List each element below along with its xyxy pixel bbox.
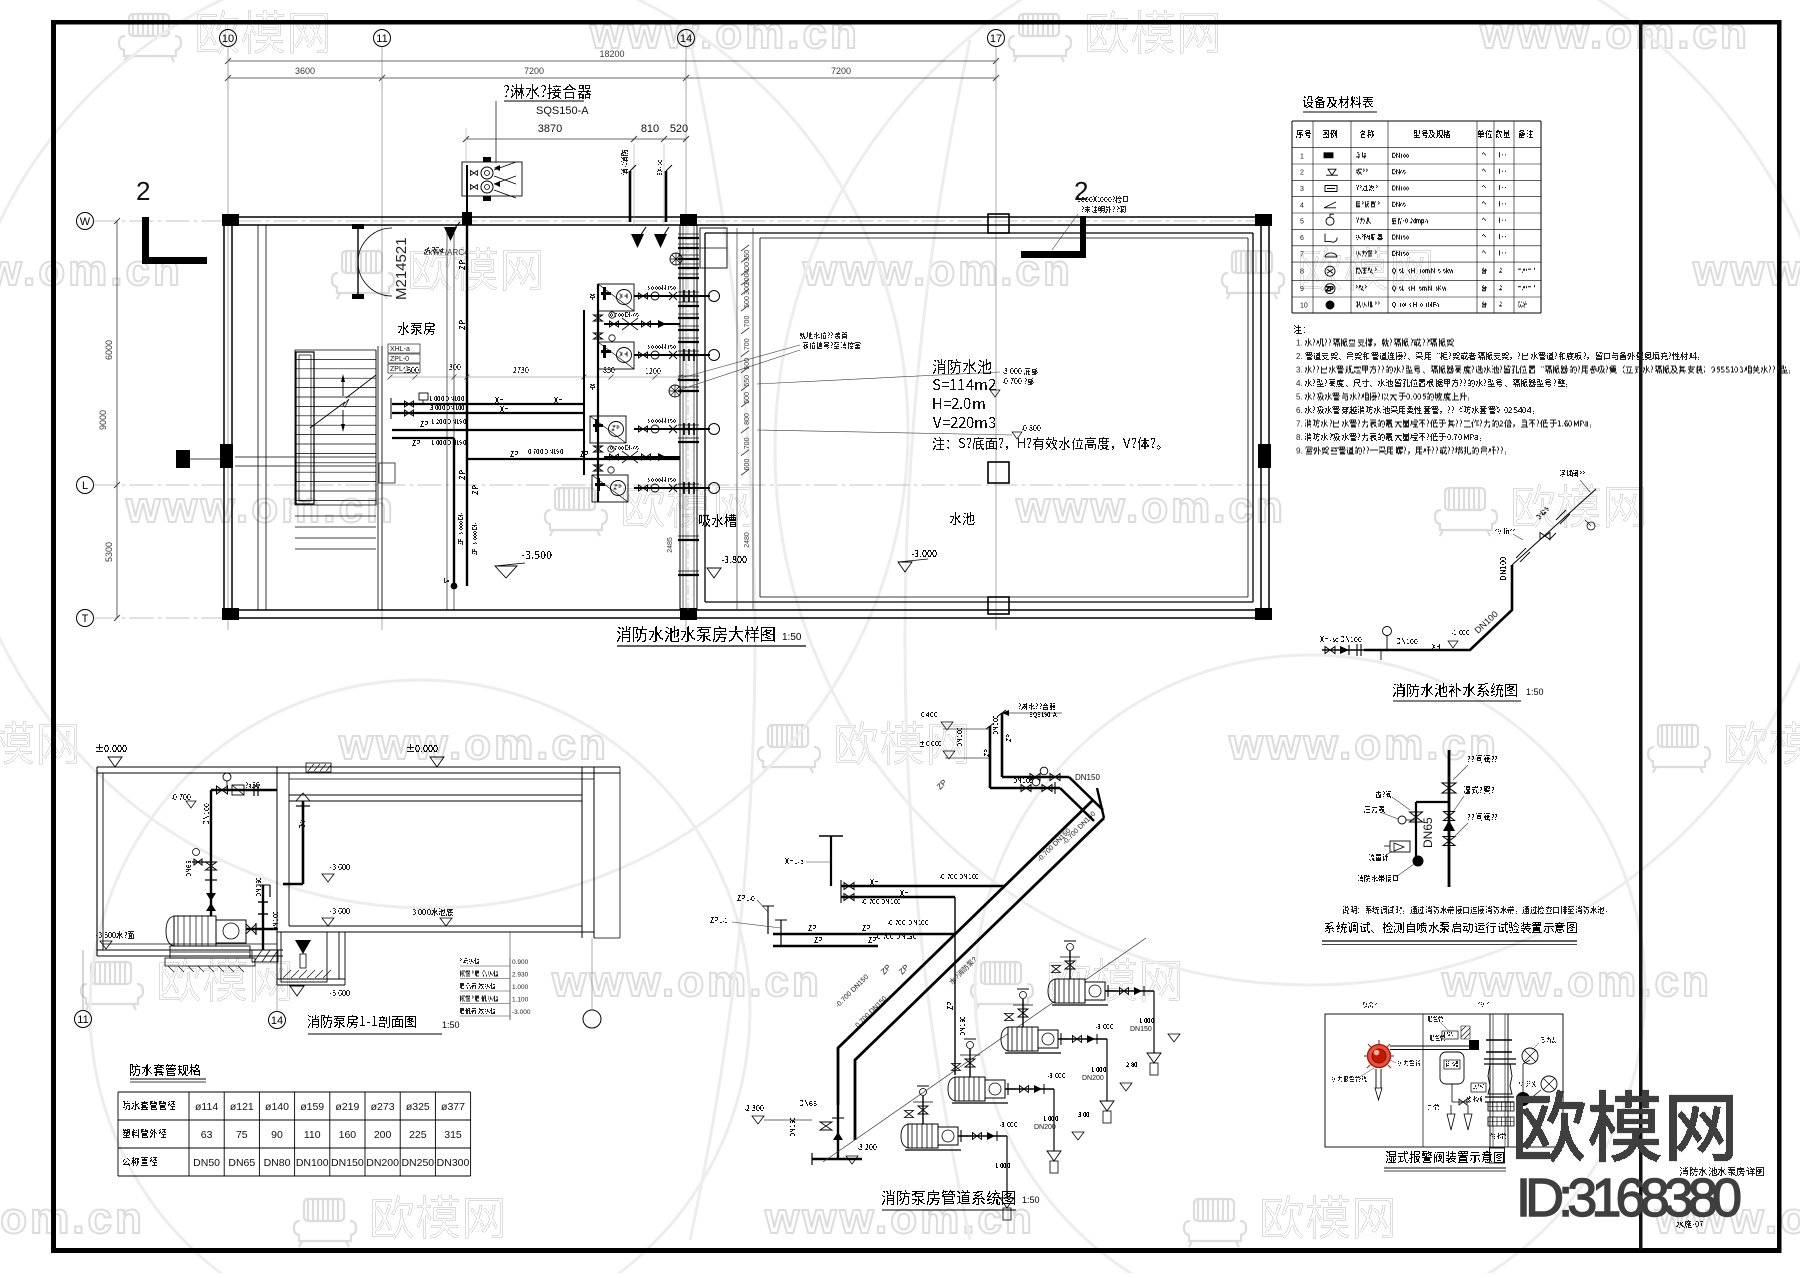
svg-text:www.om.cn: www.om.cn — [0, 246, 183, 295]
pump discharge pipe ZP1 — [634, 419, 720, 436]
iso discharge P1 — [1116, 986, 1154, 1053]
svg-text:8: 8 — [1300, 269, 1304, 276]
svg-text:1:50: 1:50 — [1526, 687, 1544, 697]
iso diagonal rotated labels — [834, 778, 1097, 1030]
section: pump unit — [165, 916, 255, 972]
svg-text:8.: 8. — [1296, 433, 1303, 442]
alarm bell red — [1364, 1040, 1394, 1100]
alarm valve flange blocks — [1466, 1097, 1514, 1139]
svg-text:DN50: DN50 — [193, 1157, 220, 1169]
ZP branch to channel y459 — [467, 450, 680, 460]
iso XH feed lines — [785, 836, 1005, 904]
iso discharge P2 — [1069, 1034, 1107, 1101]
section: sump pit with strainer — [281, 932, 331, 996]
interior dim row 1500/300/2730/850/1200 — [388, 365, 683, 380]
section: vent opening — [306, 763, 331, 772]
corridor wall lines — [258, 225, 454, 610]
test valve row 1 — [604, 313, 680, 331]
pump XH plan — [598, 284, 634, 311]
wet alarm title 湿式报警阀装置示意图 — [1384, 1148, 1506, 1171]
svg-text:9000: 9000 — [98, 410, 108, 430]
fire hydrants in plan — [631, 227, 669, 248]
test device title 系统调试检测自喷水泵启动运行试验装置示意图 — [1322, 923, 1577, 945]
svg-text:DN65: DN65 — [1421, 817, 1435, 848]
section: suction pipe in pool — [283, 793, 310, 884]
iso pump P2 — [1001, 1027, 1069, 1053]
iso funnel P3 — [1047, 1151, 1061, 1173]
svg-text:SQS150-A: SQS150-A — [536, 105, 589, 117]
iso riser A to connector — [958, 723, 1095, 821]
channel flange stacks — [678, 234, 699, 575]
section: top slab — [97, 767, 620, 801]
iso valve chain P2 — [1005, 989, 1034, 1027]
svg-text:W: W — [80, 216, 91, 228]
svg-text:550: 550 — [744, 375, 751, 387]
pump discharge pipe ZP2 — [634, 478, 720, 495]
svg-text:ZPL-0: ZPL-0 — [390, 356, 409, 363]
section: pump base level -3.500 — [96, 932, 134, 950]
svg-text:75: 75 — [236, 1129, 248, 1141]
thick L wall top-left with section mark 2 — [142, 217, 207, 264]
iso discharge P4 — [969, 1131, 1007, 1198]
sprinkler pump connector box — [462, 157, 522, 215]
channel dim strip — [667, 228, 753, 610]
section: suction piping at wall — [246, 878, 278, 962]
svg-text:ø325: ø325 — [406, 1101, 430, 1113]
pump discharge pipe XH1 — [634, 286, 720, 303]
svg-text:XHL-a: XHL-a — [390, 346, 410, 353]
iso long leader diagonal — [823, 938, 1146, 1162]
svg-text:225: 225 — [409, 1129, 427, 1141]
alarm piping to riser — [1390, 1036, 1479, 1051]
iso pump P1 — [1048, 979, 1116, 1005]
grid circle 10 — [220, 30, 237, 631]
iso discharge P3 — [1016, 1084, 1054, 1151]
svg-text:DN150: DN150 — [1130, 1026, 1152, 1033]
grid circle 11 section — [75, 950, 92, 1028]
svg-text:600: 600 — [744, 459, 751, 471]
column blobs on walls — [220, 214, 1272, 620]
svg-text:6: 6 — [1300, 235, 1304, 242]
section: leader level list — [460, 932, 531, 1020]
svg-text:7.: 7. — [1296, 420, 1303, 429]
XH feed pipe pair — [391, 393, 584, 419]
iso connector top labels — [920, 704, 1062, 760]
thick L wall top-right — [1021, 216, 1086, 258]
svg-text:200: 200 — [374, 1129, 392, 1141]
svg-text:-3.000: -3.000 — [512, 1009, 531, 1016]
iso funnel P1 — [1147, 1053, 1161, 1075]
grid circle 14 section — [269, 985, 286, 1029]
svg-text:1.: 1. — [1296, 339, 1303, 348]
iso pump P3 — [948, 1077, 1016, 1103]
big watermark 欧模网 — [1516, 1091, 1733, 1162]
pool level -3.000 — [898, 551, 937, 573]
svg-text:11: 11 — [376, 33, 387, 45]
svg-text:DN200: DN200 — [1034, 1124, 1056, 1131]
dimension 18200 top — [225, 49, 999, 64]
grid circle L — [77, 477, 1271, 494]
svg-text:1:50: 1:50 — [442, 1020, 460, 1030]
svg-text:ZP: ZP — [1326, 287, 1334, 293]
wall top axis W — [228, 217, 1265, 225]
dimension row 3600/7200/7200 — [225, 58, 999, 90]
wall right axis 17+ — [1261, 221, 1269, 618]
section: level ±0.000 marks — [96, 745, 444, 768]
svg-text:1.100: 1.100 — [512, 997, 529, 1004]
svg-text:800: 800 — [744, 413, 751, 425]
svg-text:7200: 7200 — [831, 66, 851, 76]
section title 消防泵房1-1剖面图 — [308, 1016, 460, 1035]
svg-text:2.930: 2.930 — [512, 972, 529, 979]
svg-text:www.om.cn: www.om.cn — [125, 483, 396, 532]
svg-text:160: 160 — [339, 1129, 357, 1141]
section flag 1 left — [176, 450, 228, 468]
iso main diagonal ZP pair — [838, 788, 1104, 1140]
svg-text:11: 11 — [77, 1014, 88, 1026]
svg-text:9: 9 — [1300, 286, 1304, 293]
iso riser B to connector — [994, 710, 1104, 810]
svg-text:DN250: DN250 — [401, 1157, 434, 1169]
svg-text:2485: 2485 — [667, 537, 674, 553]
test device right valves — [1443, 812, 1455, 846]
grid circle 17 — [988, 30, 1005, 631]
svg-text:17: 17 — [990, 33, 1002, 45]
title block text 水施-07 — [1676, 1221, 1703, 1228]
section: pump room walls — [97, 767, 283, 956]
pipe labels XHL ZPL boxed — [388, 344, 420, 373]
replenish diagonal labels — [1473, 557, 1506, 635]
svg-text:www.om.cn: www.om.cn — [1441, 957, 1712, 1006]
svg-text:1:50: 1:50 — [782, 632, 802, 643]
leader to level sensor — [676, 333, 861, 392]
iso pump room risers — [947, 897, 979, 1075]
connector label — [496, 85, 591, 164]
alarm bell labels — [1332, 1060, 1420, 1082]
svg-text:1: 1 — [1300, 153, 1304, 160]
section: pool walls — [277, 767, 620, 985]
replenish float valve branch — [1495, 471, 1595, 563]
retard chamber — [1428, 1017, 1486, 1110]
room label 水池 — [950, 513, 975, 525]
hydrant below wall at riser — [424, 222, 460, 254]
svg-text:315: 315 — [444, 1129, 462, 1141]
svg-text:www.om.cn: www.om.cn — [589, 9, 860, 58]
svg-text:www.om.cn: www.om.cn — [1228, 720, 1499, 769]
svg-text:www.om.cn: www.om.cn — [1692, 246, 1800, 295]
svg-text:0.900: 0.900 — [512, 959, 529, 966]
left dimension 9000/5300 — [98, 218, 120, 621]
pump ZP plan — [590, 416, 626, 443]
svg-text:www.om.cn: www.om.cn — [1015, 483, 1286, 532]
svg-text:3600: 3600 — [295, 66, 315, 76]
replenish title 消防水池补水系统图 — [1393, 684, 1544, 702]
iso valve chain P4 — [905, 1086, 934, 1124]
svg-text:DN200: DN200 — [1082, 1075, 1104, 1082]
svg-text:ID:3168380: ID:3168380 — [1516, 1168, 1742, 1228]
svg-text:2: 2 — [1300, 170, 1304, 177]
svg-text:14: 14 — [271, 1015, 283, 1027]
svg-text:700: 700 — [744, 437, 751, 449]
svg-text:1.000: 1.000 — [512, 984, 529, 991]
pump discharge pipe XH2 — [634, 345, 720, 362]
manifold header pipe — [584, 284, 615, 502]
sleeve table — [118, 1092, 471, 1176]
svg-text:T: T — [82, 613, 89, 625]
svg-text:ø273: ø273 — [371, 1101, 395, 1113]
room label 水泵房 — [398, 323, 435, 335]
svg-text:1:50: 1:50 — [1022, 1195, 1040, 1205]
svg-text:DN80: DN80 — [264, 1157, 291, 1169]
dim 3870 — [463, 123, 689, 225]
sleeve table title 防水套管规格 — [130, 1065, 206, 1083]
iso valve chain P3 — [952, 1039, 981, 1077]
replenish left assembly — [1320, 627, 1469, 661]
stair — [235, 346, 382, 610]
iso pump P4 — [901, 1124, 969, 1150]
svg-text:ø140: ø140 — [265, 1101, 289, 1113]
door arcs top-left — [352, 224, 392, 299]
pool data text block — [933, 360, 1161, 450]
test valve row 2 — [604, 446, 680, 464]
svg-text:ø159: ø159 — [300, 1101, 324, 1113]
suction channel walls — [680, 225, 697, 610]
wall left axis 10 — [224, 221, 232, 618]
equipment table 设备及材料表 — [1292, 97, 1541, 314]
svg-text:ø377: ø377 — [441, 1101, 465, 1113]
svg-text:ø121: ø121 — [230, 1101, 254, 1113]
iso valve chain P1 — [1052, 941, 1081, 979]
title block text 消防水池水泵房详图 — [1680, 1168, 1764, 1176]
svg-text:63: 63 — [201, 1129, 213, 1141]
svg-text:810: 810 — [641, 123, 659, 135]
iso title 消防泵房管道系统图 — [882, 1191, 1040, 1211]
svg-text:2: 2 — [136, 176, 150, 206]
ZP riser pipe vertical — [459, 212, 478, 586]
grid circle 11 — [374, 30, 391, 631]
iso funnel P4 — [1000, 1198, 1014, 1220]
svg-text:ø114: ø114 — [195, 1101, 218, 1113]
svg-text:DN150: DN150 — [1075, 773, 1100, 782]
svg-text:3870: 3870 — [538, 123, 562, 135]
svg-text:10: 10 — [222, 33, 234, 45]
alarm valve assembly — [1484, 1014, 1557, 1147]
grid circle T — [77, 610, 1271, 627]
svg-text:ø219: ø219 — [335, 1101, 359, 1113]
channel level labels — [757, 369, 1041, 440]
svg-text:2.: 2. — [1296, 352, 1303, 361]
svg-text:DN65: DN65 — [228, 1157, 255, 1169]
strainer circles — [669, 253, 682, 397]
section: pool levels — [322, 865, 453, 996]
iso pump levels — [996, 1019, 1180, 1168]
svg-text:DN200: DN200 — [366, 1157, 399, 1169]
svg-text:2480: 2480 — [744, 532, 751, 548]
svg-text:90: 90 — [271, 1129, 283, 1141]
svg-text:DN300: DN300 — [437, 1157, 470, 1169]
svg-text:ZPL-1: ZPL-1 — [390, 366, 409, 373]
test device note line — [1343, 907, 1607, 914]
hydrant riser EX pipes — [622, 150, 673, 222]
svg-text:520: 520 — [670, 123, 688, 135]
svg-text:3.: 3. — [1296, 366, 1303, 375]
access hole 1000X1000 label — [1052, 197, 1128, 251]
sump box right of channel top — [700, 228, 727, 268]
svg-text:7200: 7200 — [524, 66, 544, 76]
svg-text:10: 10 — [1300, 303, 1308, 310]
test device main pipe — [1442, 750, 1456, 887]
svg-text:6.: 6. — [1296, 406, 1303, 415]
ZP feed pipe pair — [392, 420, 584, 446]
iso funnel P2 — [1100, 1101, 1114, 1123]
svg-text:9.: 9. — [1296, 447, 1303, 456]
grid circle W — [77, 213, 1271, 230]
svg-text:www.om.cn: www.om.cn — [551, 957, 822, 1006]
svg-text:DN100: DN100 — [296, 1157, 329, 1169]
svg-text:6000: 6000 — [104, 340, 114, 360]
svg-text:7: 7 — [1300, 251, 1304, 258]
svg-text:300: 300 — [744, 283, 751, 295]
svg-text:3: 3 — [1300, 186, 1304, 193]
svg-text:700: 700 — [744, 338, 751, 350]
svg-text:L: L — [82, 480, 88, 492]
room label 吸水槽 — [699, 515, 736, 527]
svg-text:4.: 4. — [1296, 379, 1303, 388]
iso bottom drain assembly — [745, 1101, 877, 1166]
pool level -3.500 — [495, 552, 552, 579]
svg-text:5.: 5. — [1296, 393, 1303, 402]
svg-text:2xWF/ARC4: 2xWF/ARC4 — [424, 248, 469, 257]
svg-text:4: 4 — [1300, 202, 1304, 209]
notes 注 — [1294, 326, 1790, 456]
pump XH plan — [598, 342, 634, 369]
wall bottom axis T — [228, 610, 1265, 618]
alarm box drain arrows — [1447, 1105, 1472, 1130]
replenish pipe run — [1364, 489, 1596, 650]
svg-text:5: 5 — [1300, 219, 1304, 226]
wet alarm valve box — [1325, 1003, 1563, 1148]
iso ZP feed lines — [710, 896, 955, 947]
grid circle 14 — [678, 30, 695, 631]
pump ZP plan — [592, 475, 628, 502]
svg-text:www.om.cn: www.om.cn — [0, 1194, 145, 1243]
svg-text:110: 110 — [304, 1129, 321, 1141]
ZP drop pipe vertical — [444, 438, 457, 589]
svg-text:www.om.cn: www.om.cn — [764, 1194, 1035, 1243]
svg-text:14: 14 — [680, 33, 692, 45]
svg-text:www.om.cn: www.om.cn — [338, 720, 609, 769]
test device labels — [1358, 756, 1497, 882]
svg-text:5300: 5300 — [104, 542, 114, 562]
svg-text:18200: 18200 — [599, 49, 624, 59]
svg-text:700: 700 — [744, 316, 751, 328]
svg-text:www.om.cn: www.om.cn — [1479, 9, 1750, 58]
test device left branch — [1384, 802, 1449, 867]
plan title 消防水池水泵房大样图 — [617, 627, 806, 647]
grid circle right section — [583, 938, 601, 1028]
svg-text:DN150: DN150 — [331, 1157, 364, 1169]
svg-text:M214521: M214521 — [393, 237, 410, 300]
title block separator line — [1639, 20, 1643, 1250]
pool level -3.800 — [707, 557, 747, 579]
section: discharge riser pipe — [172, 773, 277, 916]
pool inner wall — [705, 233, 1253, 602]
